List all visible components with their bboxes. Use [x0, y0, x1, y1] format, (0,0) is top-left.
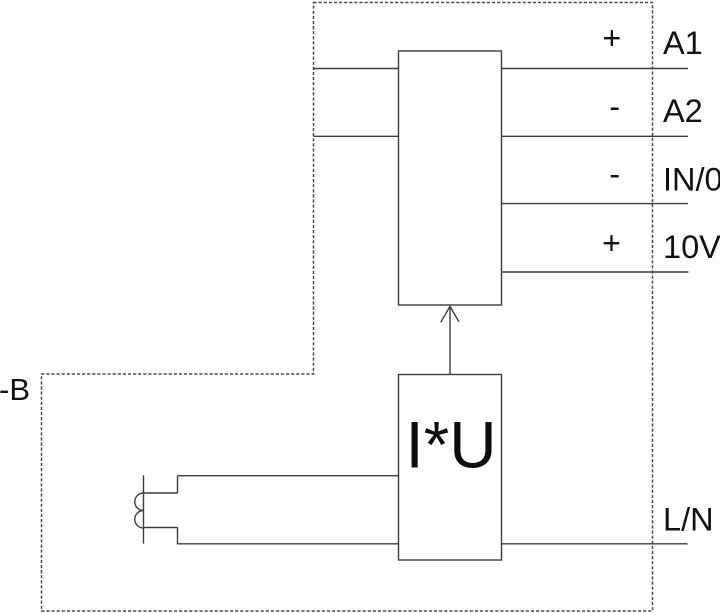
wire coil to multiplier top [178, 475, 399, 477]
transducer block U1 [399, 51, 502, 305]
svg-text:I*U: I*U [406, 409, 497, 482]
wire A2 [502, 135, 689, 137]
wire IN/0 [502, 203, 689, 205]
signal arrow shaft from multiplier to transducer [449, 307, 451, 375]
wire coil to multiplier bottom L/N run [177, 543, 399, 545]
svg-text:A2: A2 [663, 93, 703, 129]
wire step down segment [177, 528, 179, 544]
signal arrow head [441, 306, 459, 322]
wire L/N [502, 543, 688, 545]
current transformer coil turn 1 [135, 493, 144, 511]
wire A1 [502, 68, 689, 70]
svg-text:IN/0: IN/0 [663, 162, 720, 198]
svg-text:+: + [602, 225, 621, 261]
wire coil bottom stub [144, 527, 178, 529]
wire step up segment [177, 476, 179, 493]
wire supply left top [314, 68, 399, 70]
multiplier block I*U [399, 375, 502, 561]
wire 10V [502, 271, 689, 273]
svg-text:-B: -B [0, 372, 30, 407]
current transformer coil turn 2 [135, 511, 144, 529]
svg-text:-: - [609, 89, 620, 125]
svg-text:-: - [609, 156, 620, 192]
current conductor bar [143, 475, 145, 543]
wire supply left bottom [314, 135, 399, 137]
svg-text:+: + [603, 20, 622, 56]
svg-text:L/N: L/N [663, 502, 714, 538]
svg-text:A1: A1 [663, 25, 703, 61]
svg-text:10V: 10V [663, 229, 720, 265]
wire coil top stub [144, 492, 178, 494]
